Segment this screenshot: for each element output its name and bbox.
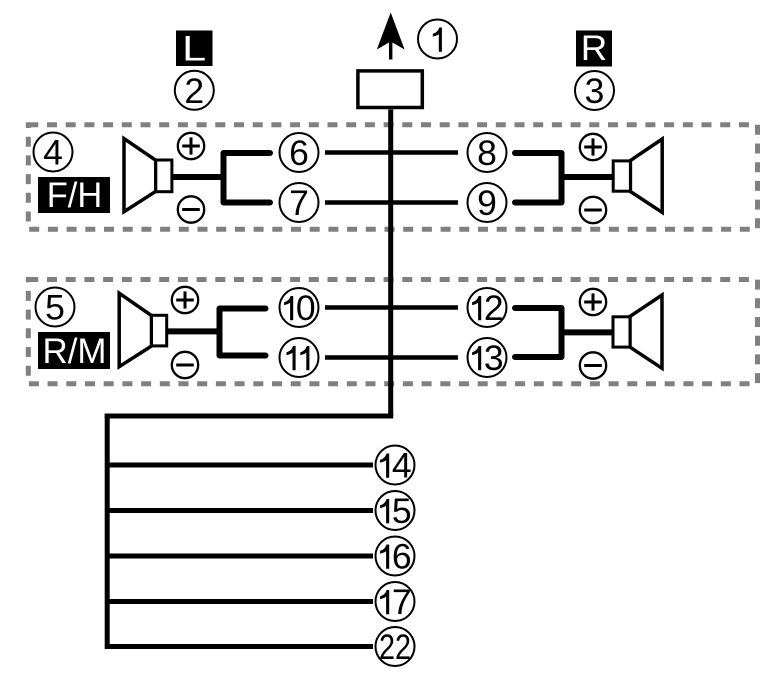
- wire speaker rear-left: [167, 328, 220, 334]
- wire 6 to 8: [325, 150, 458, 154]
- svg-text:6: 6: [289, 133, 309, 173]
- antenna connector box: [358, 71, 422, 108]
- wire 10 to 12: [325, 305, 458, 309]
- speaker front-left: [124, 139, 172, 212]
- callout 6: [280, 133, 319, 173]
- callout 12: [468, 288, 507, 328]
- wire speaker rear-right: [562, 329, 615, 335]
- wire speaker front-right: [562, 174, 615, 180]
- minus terminal front-right: [580, 197, 606, 223]
- speaker rear-right: [613, 295, 662, 368]
- callout 5: [36, 288, 75, 328]
- label F/H: [38, 175, 110, 215]
- wire branch 22: [105, 644, 373, 649]
- speaker front-right: [613, 139, 662, 212]
- callout 10: [280, 288, 319, 328]
- callout 8: [468, 133, 507, 173]
- svg-text:22: 22: [379, 627, 411, 667]
- plus terminal rear-left: [172, 287, 198, 313]
- wire branch 16: [105, 554, 373, 559]
- speaker rear-left: [119, 293, 167, 367]
- callout 2: [175, 71, 214, 111]
- dashed box front speakers F/H: [28, 125, 757, 230]
- wire branch 14: [105, 463, 373, 468]
- label L: [176, 28, 213, 68]
- svg-text:5: 5: [392, 491, 412, 531]
- callout 17: [376, 582, 415, 622]
- callout 13: [468, 338, 507, 378]
- svg-text:7: 7: [289, 183, 309, 223]
- wire fork front-right: [515, 153, 562, 203]
- wire fork front-left: [224, 153, 271, 203]
- minus terminal rear-right: [580, 352, 606, 378]
- svg-text:7: 7: [392, 582, 412, 622]
- wire speaker front-left: [172, 174, 224, 180]
- svg-text:4: 4: [392, 446, 412, 486]
- svg-text:F/H: F/H: [47, 175, 103, 215]
- callout 4: [34, 133, 73, 173]
- svg-text:3: 3: [484, 338, 504, 378]
- callout 9: [468, 183, 507, 223]
- antenna arrow: [377, 13, 405, 60]
- svg-text:5: 5: [45, 288, 65, 328]
- callout 1: [418, 20, 457, 59]
- callout 7: [280, 183, 319, 223]
- plus terminal front-right: [580, 134, 606, 160]
- svg-text:3: 3: [585, 71, 605, 111]
- svg-text:4: 4: [43, 133, 63, 173]
- plus terminal front-left: [178, 133, 204, 159]
- harness left vertical wire: [105, 414, 110, 650]
- plus terminal rear-right: [580, 289, 606, 315]
- wire fork rear-right: [515, 308, 562, 357]
- svg-text:L: L: [182, 28, 206, 68]
- svg-text:8: 8: [477, 133, 497, 173]
- svg-text:2: 2: [484, 288, 504, 328]
- minus terminal front-left: [178, 196, 204, 222]
- label R/M: [38, 331, 110, 371]
- callout 16: [376, 537, 415, 577]
- callout 11: [280, 338, 319, 377]
- svg-text:9: 9: [477, 183, 497, 223]
- label R: [576, 28, 612, 68]
- callout 15: [376, 491, 415, 531]
- wire branch 17: [105, 599, 373, 604]
- callout 22: [376, 627, 415, 667]
- svg-text:R: R: [581, 28, 608, 68]
- wire 7 to 9: [325, 200, 458, 204]
- wire 11 to 13: [325, 355, 458, 359]
- svg-text:6: 6: [392, 537, 412, 577]
- callout 14: [376, 446, 415, 486]
- svg-text:2: 2: [184, 71, 204, 111]
- svg-text:R/M: R/M: [43, 331, 107, 371]
- main harness vertical wire: [388, 110, 393, 417]
- minus terminal rear-left: [172, 352, 198, 378]
- dashed box rear speakers R/M: [28, 280, 757, 384]
- harness elbow horizontal wire: [105, 414, 394, 419]
- callout 3: [575, 71, 614, 111]
- wire branch 15: [105, 508, 373, 513]
- wire fork rear-left: [220, 309, 266, 356]
- svg-text:0: 0: [296, 288, 316, 328]
